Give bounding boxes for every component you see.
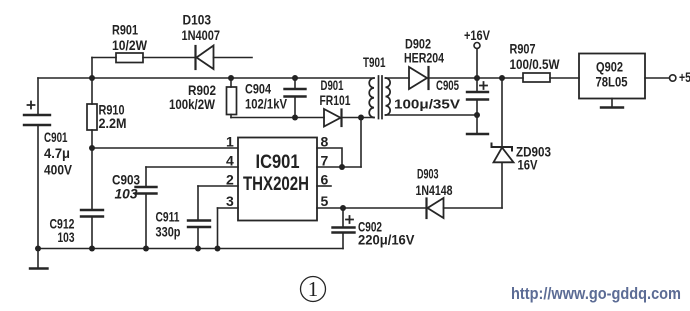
svg-text:C911: C911 <box>156 209 180 225</box>
svg-text:D103: D103 <box>183 12 212 28</box>
capacitor C912 bottom lead <box>91 217 93 249</box>
node: junction dot rail/riser <box>89 75 95 81</box>
svg-text:T901: T901 <box>363 54 386 70</box>
wire: pin 4 wire <box>146 166 238 168</box>
wire: FR101 cathode to primary bottom <box>342 117 375 119</box>
capacitor C905 plates <box>467 92 488 100</box>
ground: bar under Q902 <box>601 106 623 108</box>
svg-text:103: 103 <box>115 186 138 202</box>
svg-text:103: 103 <box>58 229 75 245</box>
svg-text:100/0.5W: 100/0.5W <box>510 56 561 72</box>
capacitor C902 top lead <box>342 208 344 228</box>
svg-text:1N4007: 1N4007 <box>182 27 221 43</box>
capacitor C905 plus sign <box>480 82 487 89</box>
capacitor C902 plus sign <box>346 216 353 223</box>
svg-text:1: 1 <box>308 277 319 301</box>
ground: stub under C905 <box>476 115 478 134</box>
svg-text:http://www.go-gddq.com: http://www.go-gddq.com <box>511 285 681 303</box>
diode D901 FR101 cathode bar <box>340 110 342 127</box>
node: junction dot C905/secondary bottom <box>474 112 480 118</box>
svg-text:102/1kV: 102/1kV <box>245 96 288 112</box>
zener ZD903 triangle <box>494 148 514 163</box>
diode D902 triangle <box>409 67 427 89</box>
wire: pin 8 wire <box>317 148 342 167</box>
diode D103 cathode bar <box>194 46 196 69</box>
wire: main B+ rail <box>38 77 374 79</box>
wire: bottom ground rail <box>38 248 343 250</box>
capacitor C901 top lead <box>37 78 39 115</box>
resistor R902 top lead <box>230 78 232 87</box>
ground: bar under C905 <box>467 133 488 135</box>
wire: top branch middle segment <box>143 57 196 59</box>
capacitor C903 bottom lead <box>145 194 147 249</box>
node: junction dot ZD903 tap <box>499 75 505 81</box>
node: junction dot primary bottom <box>358 115 364 121</box>
schematic sheet number circle <box>301 277 326 302</box>
node: junction dot rail/R902 <box>228 75 234 81</box>
wire: top branch left segment <box>92 57 116 59</box>
resistor R910 top lead <box>91 78 93 104</box>
wire: snubber bottom horizontal <box>231 117 324 119</box>
capacitor C901 plates <box>24 115 50 125</box>
svg-text:THX202H: THX202H <box>243 174 309 195</box>
svg-text:R901: R901 <box>112 22 138 38</box>
capacitor C904 bottom lead <box>294 97 296 118</box>
svg-text:+5: +5 <box>679 69 690 85</box>
node: junction dot pin5/C902 <box>340 205 346 211</box>
IC901 box <box>238 138 317 221</box>
resistor R902 bottom lead <box>230 115 232 118</box>
svg-text:D901: D901 <box>321 77 344 93</box>
node: junction dot rail/C903 <box>143 246 149 252</box>
resistor R907 body <box>523 73 550 82</box>
capacitor C911 plates <box>188 221 210 228</box>
svg-text:330p: 330p <box>156 224 181 240</box>
svg-text:4.7μ: 4.7μ <box>44 145 70 161</box>
diode D901 FR101 triangle <box>324 109 341 127</box>
resistor R902 body <box>227 87 237 115</box>
svg-text:220μ/16V: 220μ/16V <box>358 232 415 248</box>
svg-text:16V: 16V <box>518 157 539 173</box>
wire: Q902 output <box>645 77 670 79</box>
wire: secondary top to D902 <box>386 77 410 79</box>
svg-text:100k/2W: 100k/2W <box>169 96 216 112</box>
svg-text:3: 3 <box>226 193 234 209</box>
resistor R910 bottom lead <box>91 130 93 148</box>
svg-text:+16V: +16V <box>464 27 491 43</box>
diode D903 triangle <box>428 198 444 218</box>
svg-text:5: 5 <box>321 193 329 209</box>
capacitor C902 bottom lead <box>342 233 344 249</box>
svg-text:D903: D903 <box>417 166 439 182</box>
node: junction dot rail/C912 <box>89 246 95 252</box>
capacitor C905 top lead <box>476 78 478 92</box>
wire: pin 3 wire <box>218 207 239 209</box>
ground: stub bottom left <box>37 249 39 269</box>
terminal +16V circle <box>474 43 480 49</box>
wire: pin 7 wire <box>317 166 361 168</box>
regulator Q902 box <box>579 54 645 99</box>
transformer T901 primary winding <box>369 78 374 118</box>
svg-text:78L05: 78L05 <box>596 74 628 90</box>
capacitor C905 bottom lead <box>476 100 478 116</box>
node: junction dot rail/C904 <box>292 75 298 81</box>
diode D103 triangle <box>197 46 214 70</box>
resistor R910 body <box>87 104 97 130</box>
svg-text:7: 7 <box>321 153 329 169</box>
capacitor C904 plates <box>285 89 306 97</box>
capacitor C903 plates <box>136 187 157 194</box>
svg-text:C904: C904 <box>245 81 271 97</box>
svg-text:R907: R907 <box>510 41 536 57</box>
ground: bar bottom left <box>30 267 48 269</box>
capacitor C911 bottom lead <box>197 227 199 249</box>
node: junction dot +16V tap <box>474 75 480 81</box>
wire: pin 2 wire <box>198 185 238 187</box>
wire: drop from primary-bottom junction to pin 7 <box>360 118 362 168</box>
svg-text:10/2W: 10/2W <box>112 37 148 53</box>
capacitor C911 top lead <box>197 186 199 221</box>
wire: ZD903 bottom lead <box>501 162 503 208</box>
svg-text:1N4148: 1N4148 <box>416 182 453 198</box>
wire: riser from main rail to top branch <box>91 58 93 79</box>
svg-text:IC901: IC901 <box>256 152 300 173</box>
svg-text:HER204: HER204 <box>404 50 444 66</box>
node: junction dot C904/snubber line <box>292 115 298 121</box>
wire: pin 6 stub <box>317 185 331 187</box>
node: junction dot rail/ground <box>35 246 41 252</box>
node: junction dot rail/pin3 <box>215 246 221 252</box>
capacitor C903 top lead <box>145 167 147 187</box>
wire: top branch right segment (open end) <box>214 57 253 59</box>
wire: R907 to Q902 <box>550 77 579 79</box>
capacitor C912 top lead <box>91 148 93 210</box>
terminal +5V circle <box>670 75 676 81</box>
svg-text:100μ/35V: 100μ/35V <box>394 97 460 112</box>
ground: stub under Q902 <box>611 99 613 108</box>
wire: +16V terminal lead <box>476 49 478 79</box>
wire: D903 anode to ZD903 corner <box>444 207 503 209</box>
node: junction dot R910/pin1 wire <box>89 145 95 151</box>
capacitor C912 plates <box>81 210 103 217</box>
svg-text:2: 2 <box>226 172 234 188</box>
svg-text:C905: C905 <box>436 77 459 93</box>
wire: pin 5 wire to D903 <box>317 207 427 209</box>
capacitor C904 top lead <box>294 78 296 89</box>
svg-text:6: 6 <box>321 172 329 188</box>
svg-text:2.2M: 2.2M <box>99 115 127 131</box>
capacitor C901 plus sign <box>28 102 35 109</box>
capacitor C902 plates <box>333 228 355 233</box>
diode D902 cathode bar <box>427 67 429 89</box>
svg-text:FR101: FR101 <box>320 92 351 108</box>
node: junction dot rail/C911 <box>195 246 201 252</box>
diode D903 cathode bar <box>425 199 427 219</box>
wire: ZD903 top lead <box>501 78 503 147</box>
transformer T901 secondary winding <box>386 78 391 115</box>
svg-text:Q902: Q902 <box>596 59 623 75</box>
svg-text:1: 1 <box>226 134 234 150</box>
node: junction dot pin8/pin7 <box>339 164 345 170</box>
svg-text:C901: C901 <box>44 129 68 145</box>
svg-text:4: 4 <box>226 153 234 169</box>
resistor R901 <box>116 53 143 63</box>
transformer T901 core <box>379 76 383 119</box>
svg-text:400V: 400V <box>44 162 73 178</box>
wire: +16V rail <box>429 77 524 79</box>
zener ZD903 cathode bar with wings <box>492 144 513 151</box>
svg-text:8: 8 <box>321 134 329 150</box>
wire: pin 3 drop to ground rail <box>217 208 219 249</box>
wire: pin 1 wire <box>92 147 238 149</box>
capacitor C901 bottom lead <box>37 125 39 249</box>
wire: secondary bottom rail <box>386 114 478 116</box>
